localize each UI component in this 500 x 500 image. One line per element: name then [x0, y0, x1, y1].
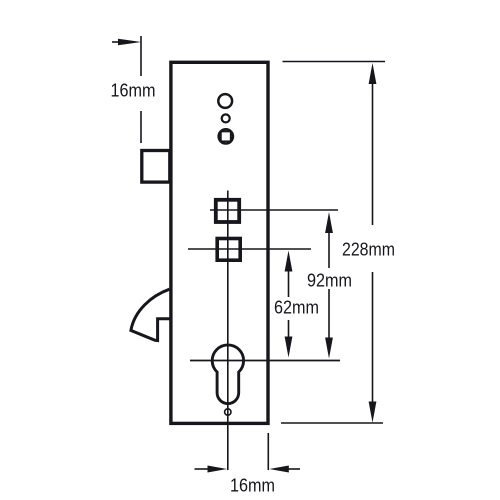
dimension 92mm line lower: [325, 289, 333, 359]
bottom right extension line: [267, 433, 269, 470]
top 16mm extension line: [140, 36, 142, 143]
svg-text:16mm: 16mm: [111, 81, 156, 101]
svg-text:228mm: 228mm: [342, 240, 395, 260]
top hole small: [222, 114, 230, 122]
latch bolt: [142, 151, 170, 183]
crosshair line square 1: [210, 209, 338, 211]
top extension line: [283, 61, 386, 63]
dimension 228mm line lower: [369, 272, 377, 423]
follower hole with square: [219, 129, 233, 143]
dimension 92mm line upper: [325, 212, 333, 268]
bottom 16mm left arrow: [195, 466, 228, 473]
lock case body: [171, 62, 268, 423]
bottom extension line: [281, 422, 383, 424]
fixing hole small circle: [225, 409, 231, 415]
dimension 228mm line upper: [369, 63, 377, 225]
dimension 62mm line upper: [285, 251, 293, 298]
svg-text:62mm: 62mm: [274, 298, 319, 318]
euro cylinder cutout: [212, 345, 243, 404]
spindle hole square 2: [217, 239, 240, 261]
svg-text:92mm: 92mm: [307, 270, 352, 290]
cylinder centerline horizontal: [190, 360, 340, 362]
vertical centerline: [227, 191, 229, 471]
dimension 62mm line lower: [285, 320, 293, 358]
top hole large: [218, 94, 232, 108]
spindle hole square 1: [216, 200, 239, 222]
hook bolt: [131, 289, 170, 340]
crosshair line square 2: [188, 248, 311, 250]
svg-text:16mm: 16mm: [230, 476, 275, 496]
bottom 16mm right arrow: [269, 466, 300, 473]
top 16mm arrow: [112, 39, 141, 46]
